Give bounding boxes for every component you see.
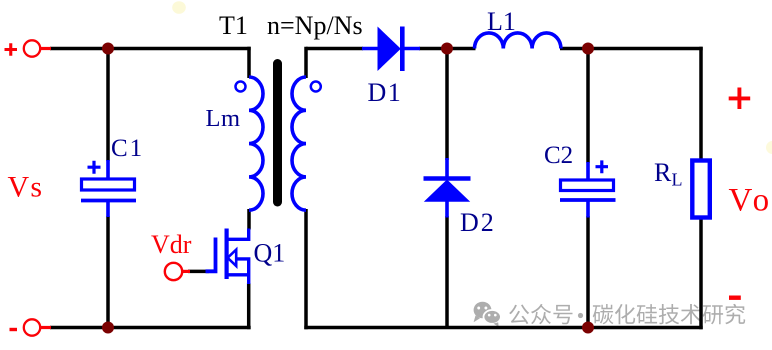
wire RL bottom bbox=[699, 217, 703, 329]
primary phase dot bbox=[236, 82, 246, 92]
svg-text:C2: C2 bbox=[544, 142, 573, 169]
svg-text:Vo: Vo bbox=[729, 183, 772, 219]
svg-text:R: R bbox=[654, 158, 672, 187]
svg-text:n=Np/Ns: n=Np/Ns bbox=[267, 11, 363, 40]
wire RL top bbox=[699, 47, 703, 161]
node: L1/C2 junction bbox=[582, 43, 594, 55]
secondary phase dot bbox=[311, 82, 321, 92]
wire secondary bottom drop bbox=[304, 209, 308, 329]
label - (input negative) bbox=[10, 328, 18, 331]
svg-text:L: L bbox=[672, 170, 683, 190]
svg-text:D2: D2 bbox=[460, 208, 496, 237]
wire D2 bottom bbox=[445, 216, 449, 328]
wire Q1 drain bbox=[247, 209, 251, 230]
transformer primary winding Lm bbox=[249, 77, 263, 210]
inductor L1 bbox=[475, 33, 561, 49]
wire secondary top rail to D1 bbox=[306, 47, 363, 51]
label + (output positive) bbox=[729, 88, 751, 110]
node: C2/bottom rail junction bbox=[582, 322, 594, 334]
svg-text:C1: C1 bbox=[111, 135, 144, 162]
node: D1/D2/L1 junction bbox=[441, 43, 453, 55]
terminal + input bbox=[24, 40, 40, 56]
transistor Q1 bbox=[206, 238, 216, 272]
diode D2 bbox=[445, 158, 449, 180]
svg-text:D1: D1 bbox=[368, 78, 403, 107]
resistor RL bbox=[692, 161, 710, 218]
wire Q1 source to bottom rail bbox=[247, 283, 251, 329]
svg-text:Q1: Q1 bbox=[254, 239, 286, 268]
svg-text:Vdr: Vdr bbox=[151, 230, 192, 259]
wire bottom-right rail bbox=[304, 326, 702, 330]
node: input+/C1 junction bbox=[102, 43, 114, 55]
transformer core bbox=[273, 64, 282, 203]
wire Vdr gate lead bbox=[188, 270, 209, 274]
svg-text:T1: T1 bbox=[219, 11, 248, 40]
label + (input positive) bbox=[5, 43, 18, 56]
wire C2 top bbox=[586, 49, 590, 164]
transformer secondary winding bbox=[292, 77, 306, 210]
wire bottom-left rail bbox=[50, 326, 251, 330]
wire C1 top branch bbox=[106, 49, 110, 162]
capacitor C1 bbox=[106, 160, 110, 180]
wire secondary top drop bbox=[304, 47, 308, 78]
terminal Vdr bbox=[165, 263, 182, 280]
svg-text:Vs: Vs bbox=[8, 171, 44, 204]
wire C1 bottom branch bbox=[106, 216, 110, 328]
wire top-left rail bbox=[50, 47, 251, 51]
wire L1 to right corner bbox=[560, 47, 703, 51]
node: input-/C1 junction bbox=[102, 322, 114, 334]
svg-text:Lm: Lm bbox=[206, 105, 241, 132]
wire primary top drop bbox=[247, 47, 251, 78]
capacitor C2 bbox=[586, 162, 590, 181]
wire D1 cathode to L1 bbox=[419, 47, 476, 51]
watermark: WeChat logo and text 公众号·碳化硅技术研究 bbox=[474, 302, 746, 327]
wire D2 top bbox=[445, 49, 449, 161]
svg-text:L1: L1 bbox=[487, 7, 516, 36]
wire C2 bottom bbox=[586, 216, 590, 328]
label - (output negative) bbox=[729, 296, 741, 300]
diode D1 bbox=[362, 47, 379, 51]
terminal - input bbox=[24, 319, 40, 335]
